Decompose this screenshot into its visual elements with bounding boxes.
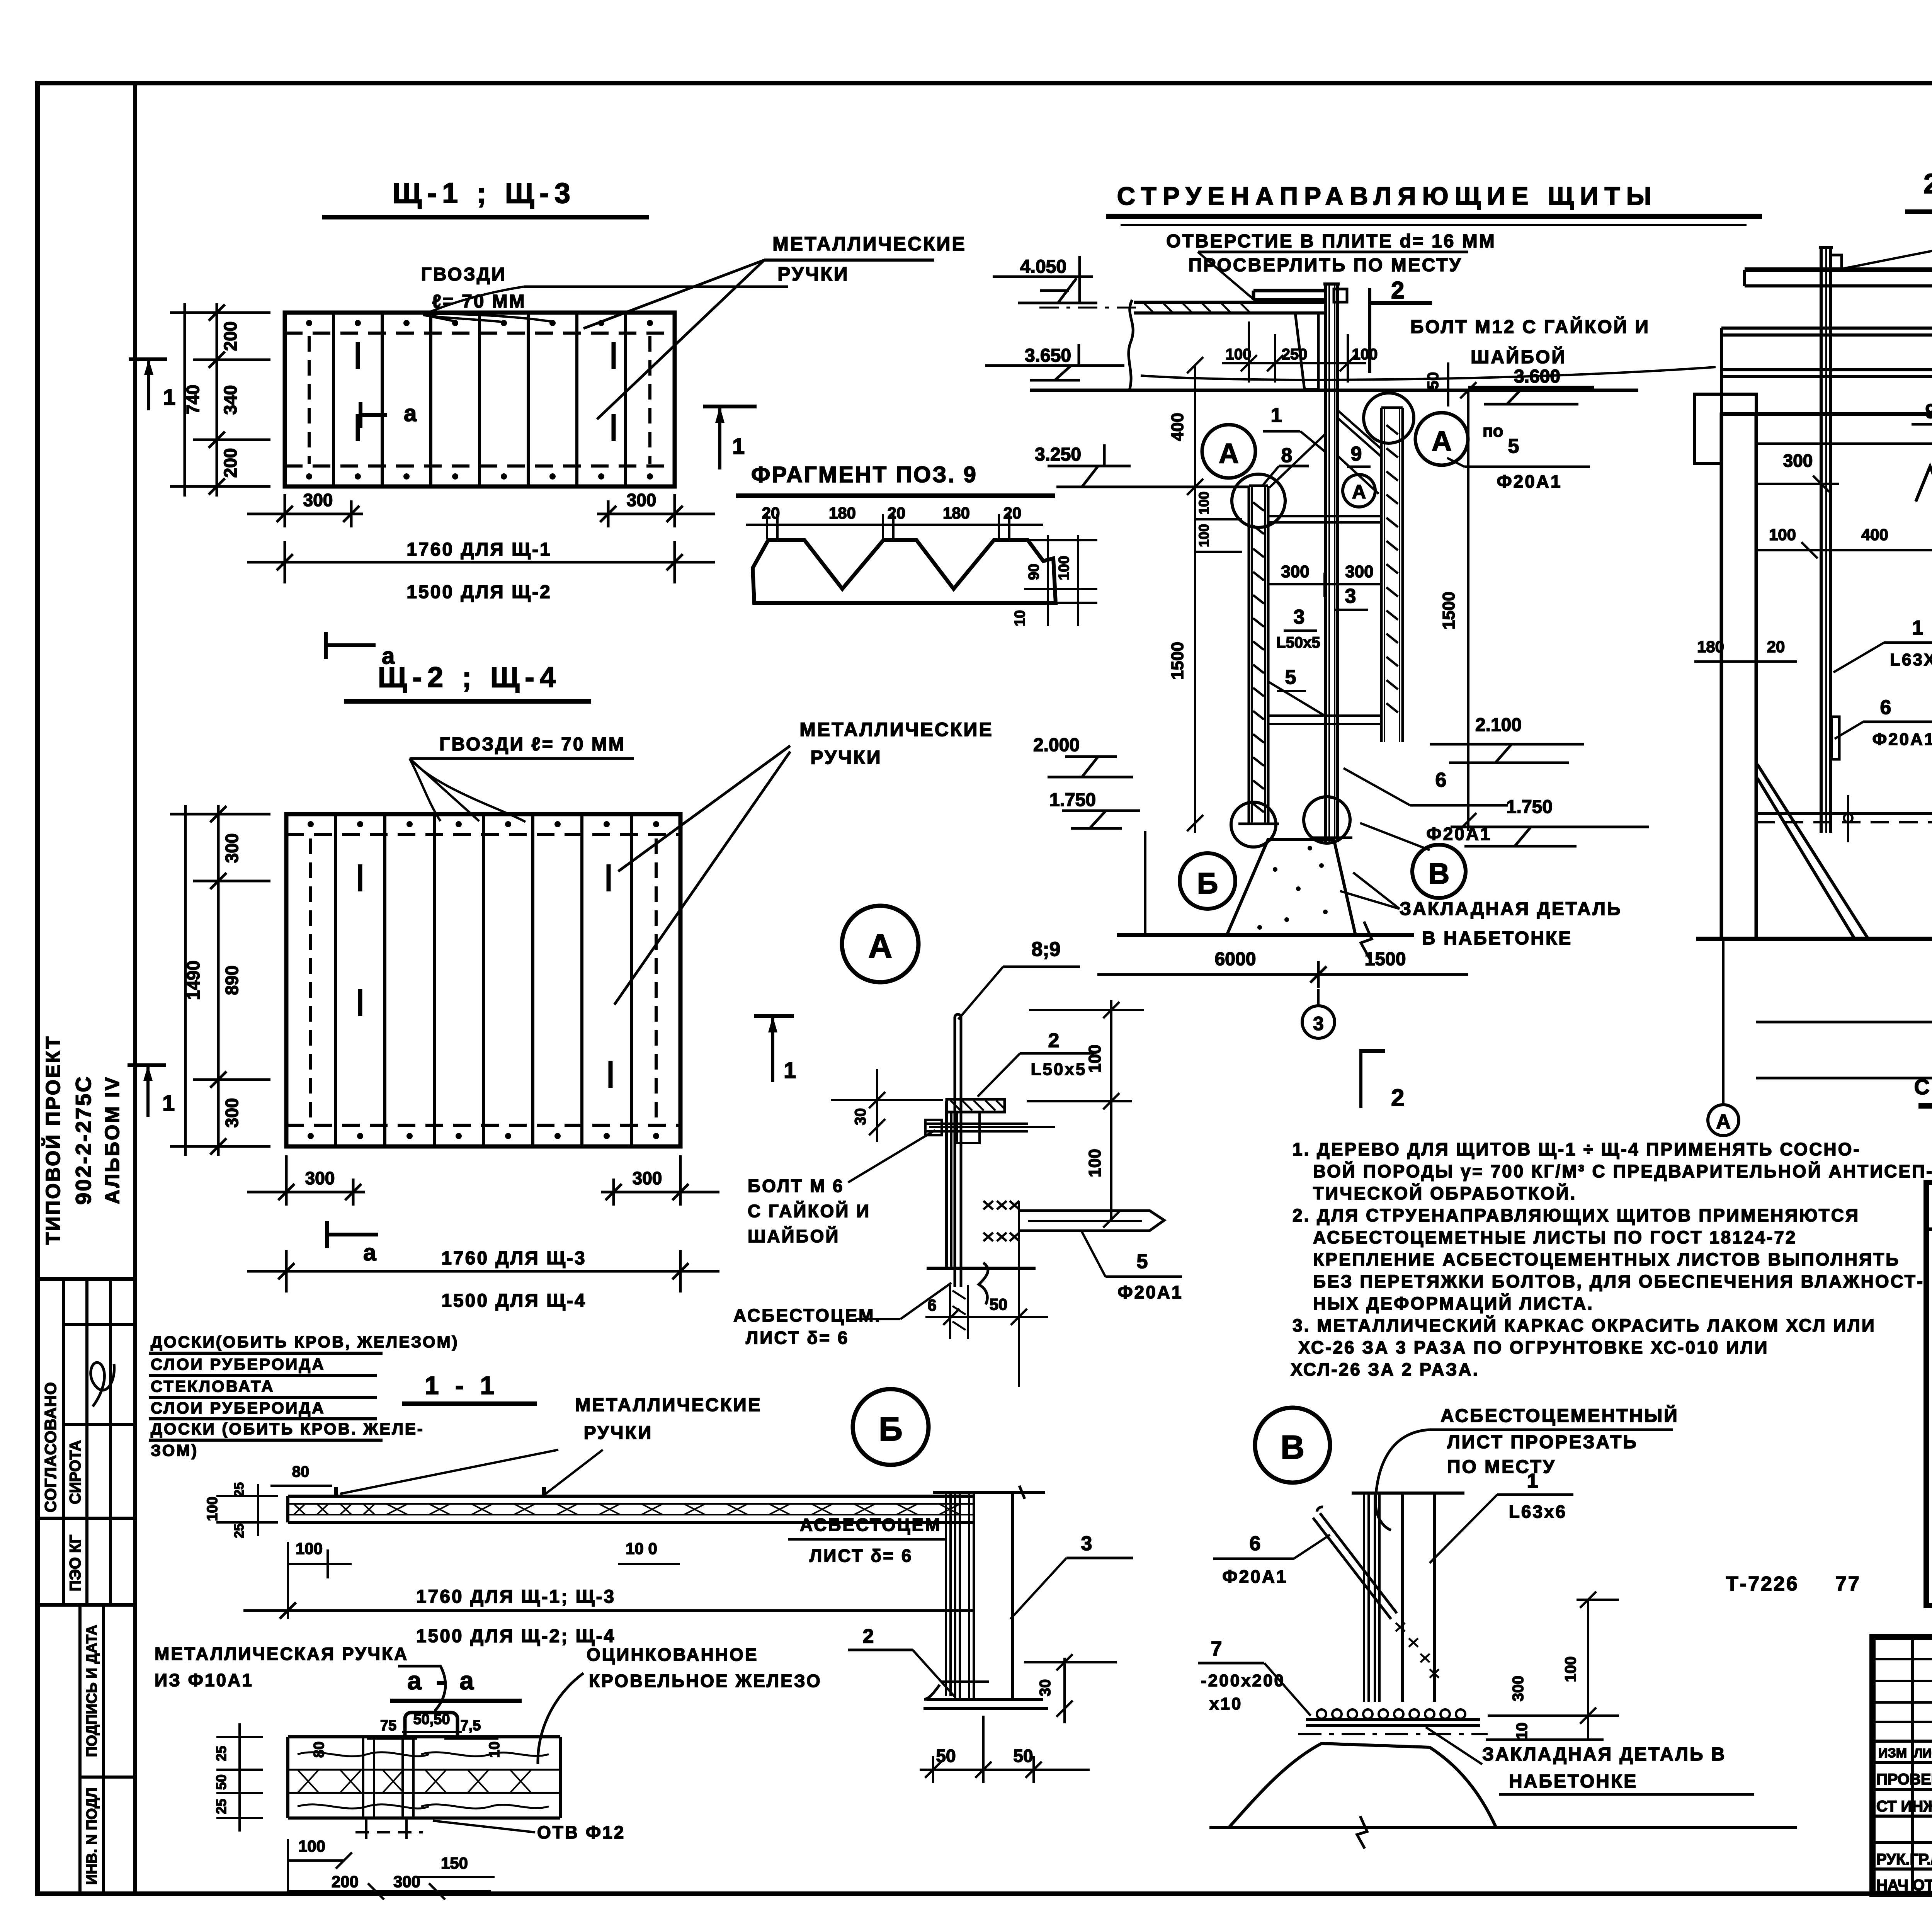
svg-text:БЕЗ ПЕРЕТЯЖКИ БОЛТОВ, ДЛЯ: БЕЗ ПЕРЕТЯЖКИ БОЛТОВ, ДЛЯ ОБЕСПЕЧЕНИЯ ВЛ… xyxy=(1313,1271,1924,1291)
svg-text:300: 300 xyxy=(1510,1676,1527,1702)
svg-text:СПЕЦИФИКАЦИЯ МЕТАЛЛА НА СТР: СПЕЦИФИКАЦИЯ МЕТАЛЛА НА СТРУЕНАПРАВЛЯЮЩИ… xyxy=(1914,1075,1932,1099)
svg-text:А: А xyxy=(1432,426,1452,457)
svg-text:300: 300 xyxy=(393,1872,420,1891)
svg-text:ИЗ Ф10А1: ИЗ Ф10А1 xyxy=(155,1670,253,1690)
svg-text:L50x5: L50x5 xyxy=(1031,1060,1087,1079)
svg-text:300: 300 xyxy=(1281,562,1309,581)
outer xyxy=(1872,1637,1932,1894)
zigzag plate xyxy=(753,540,1056,603)
bolt M12 xyxy=(1334,289,1347,302)
svg-text:1500: 1500 xyxy=(1168,642,1187,680)
svg-text:ПОДПИСЬ И ДАТА: ПОДПИСЬ И ДАТА xyxy=(84,1625,100,1757)
svg-text:МЕТАЛЛИЧЕСКАЯ РУЧКА: МЕТАЛЛИЧЕСКАЯ РУЧКА xyxy=(155,1644,408,1664)
left dims 25 50 25 xyxy=(238,1723,241,1832)
board joints xyxy=(332,313,335,486)
svg-text:90: 90 xyxy=(1026,564,1042,580)
post verticals xyxy=(1401,1493,1404,1702)
svg-text:а: а xyxy=(404,400,417,426)
right bar xyxy=(1380,408,1383,742)
svg-text:400: 400 xyxy=(1168,413,1187,441)
left dims 300/890/300 1490 xyxy=(217,805,220,1156)
svg-text:Ф20А1: Ф20А1 xyxy=(1222,1566,1287,1587)
weld x marks xyxy=(983,1201,1019,1241)
svg-text:Б: Б xyxy=(879,1411,903,1448)
dashed verticals in end boards xyxy=(308,336,311,464)
svg-text:МЕТАЛЛИЧЕСКИЕ: МЕТАЛЛИЧЕСКИЕ xyxy=(772,233,966,255)
dashed batten lines xyxy=(285,332,675,335)
svg-text:1500 ДЛЯ Щ-2: 1500 ДЛЯ Щ-2 xyxy=(406,582,551,602)
svg-text:300: 300 xyxy=(222,833,242,863)
left wall hatched xyxy=(1721,414,1756,939)
svg-text:200: 200 xyxy=(220,321,240,351)
svg-text:30: 30 xyxy=(1037,1679,1054,1697)
svg-text:1760 ДЛЯ Щ-1; Щ-3: 1760 ДЛЯ Щ-1; Щ-3 xyxy=(416,1587,616,1607)
x-hatch middle layer xyxy=(298,1770,531,1793)
svg-text:1760 ДЛЯ Щ-1: 1760 ДЛЯ Щ-1 xyxy=(406,539,551,560)
svg-text:Ф20А1: Ф20А1 xyxy=(1872,730,1932,749)
L angle vertical leg xyxy=(945,1101,948,1268)
bolt tail below xyxy=(949,1285,951,1339)
posts xyxy=(1820,247,1823,833)
right small dims xyxy=(1047,535,1049,626)
soffit line 3.600 level xyxy=(1030,389,1638,392)
svg-text:8: 8 xyxy=(1281,444,1293,467)
handle xyxy=(405,1713,457,1737)
svg-text:400: 400 xyxy=(1861,526,1888,544)
braces xyxy=(1338,410,1381,449)
svg-text:ЗОМ): ЗОМ) xyxy=(151,1441,198,1459)
svg-text:Ф20А1: Ф20А1 xyxy=(1117,1282,1183,1302)
svg-text:5: 5 xyxy=(1137,1250,1148,1273)
svg-text:6: 6 xyxy=(927,1296,936,1314)
svg-text:150: 150 xyxy=(441,1854,468,1872)
central post xyxy=(1324,284,1327,842)
svg-text:СТЕКЛОВАТА: СТЕКЛОВАТА xyxy=(151,1377,275,1395)
section mark 1 left xyxy=(128,1063,166,1067)
svg-text:9: 9 xyxy=(1351,443,1362,465)
callout circle Б xyxy=(853,1389,929,1465)
svg-text:ℓ= 70 ММ: ℓ= 70 ММ xyxy=(432,291,526,312)
svg-text:Ф20А1: Ф20А1 xyxy=(1497,471,1562,492)
svg-text:КРЕПЛЕНИЕ АСБЕСТОЦЕМЕНТНЫХ Л: КРЕПЛЕНИЕ АСБЕСТОЦЕМЕНТНЫХ ЛИСТОВ ВЫПОЛН… xyxy=(1313,1249,1900,1269)
svg-text:100: 100 xyxy=(204,1497,221,1521)
wood grain squiggles top layer xyxy=(298,1752,549,1756)
callout circles xyxy=(1202,425,1255,478)
svg-text:6: 6 xyxy=(1250,1532,1261,1555)
svg-text:9: 9 xyxy=(1925,400,1932,423)
nail dots top xyxy=(306,320,653,480)
svg-text:МЕТАЛЛИЧЕСКИЕ: МЕТАЛЛИЧЕСКИЕ xyxy=(799,719,993,740)
svg-text:L63X6: L63X6 xyxy=(1890,650,1932,669)
gusset hatched xyxy=(957,1112,980,1143)
svg-text:В НАБЕТОНКЕ: В НАБЕТОНКЕ xyxy=(1422,928,1572,949)
svg-text:100: 100 xyxy=(1056,556,1072,580)
svg-text:ШАЙБОЙ: ШАЙБОЙ xyxy=(748,1226,840,1246)
svg-text:300: 300 xyxy=(1345,562,1373,581)
svg-text:1: 1 xyxy=(1271,404,1282,427)
svg-text:x10: x10 xyxy=(1209,1694,1242,1713)
x-hatch cells xyxy=(294,1504,960,1515)
svg-text:1. ДЕРЕВО ДЛЯ ЩИТОВ Щ-1 ÷ Щ-: 1. ДЕРЕВО ДЛЯ ЩИТОВ Щ-1 ÷ Щ-4 ПРИМЕНЯТЬ … xyxy=(1293,1139,1861,1159)
svg-text:3.250: 3.250 xyxy=(1035,444,1081,465)
bolt through xyxy=(927,1122,1028,1125)
bottom dims xyxy=(247,1191,365,1194)
slab strip xyxy=(1134,301,1324,304)
svg-text:ШАЙБОЙ: ШАЙБОЙ xyxy=(1471,346,1566,367)
svg-text:L50x5: L50x5 xyxy=(1276,634,1320,651)
svg-text:10: 10 xyxy=(1012,610,1028,626)
mound xyxy=(1229,1743,1496,1828)
svg-text:3: 3 xyxy=(1345,585,1356,607)
svg-text:РУЧКИ: РУЧКИ xyxy=(777,263,849,285)
svg-text:100: 100 xyxy=(1085,1044,1104,1073)
svg-text:20: 20 xyxy=(1003,504,1022,522)
svg-text:АСБЕСТОЦЕМ.: АСБЕСТОЦЕМ. xyxy=(733,1305,881,1325)
svg-text:2 - 2: 2 - 2 xyxy=(1923,168,1932,199)
svg-text:А: А xyxy=(1716,1111,1731,1133)
svg-text:ЛИСТ δ= 6: ЛИСТ δ= 6 xyxy=(810,1546,913,1566)
svg-text:1500 ДЛЯ Щ-4: 1500 ДЛЯ Щ-4 xyxy=(441,1291,586,1311)
svg-text:30: 30 xyxy=(852,1108,869,1126)
svg-text:СТРУЕНАПРАВЛЯЮЩИЕ ЩИТЫ: СТРУЕНАПРАВЛЯЮЩИЕ ЩИТЫ xyxy=(1117,182,1658,210)
svg-text:100: 100 xyxy=(1226,346,1252,363)
svg-text:2. ДЛЯ СТРУЕНАПРАВЛЯЮЩИХ ЩИТ: 2. ДЛЯ СТРУЕНАПРАВЛЯЮЩИХ ЩИТОВ ПРИМЕНЯЮТ… xyxy=(1293,1205,1860,1225)
svg-text:25: 25 xyxy=(232,1524,247,1538)
svg-text:СИРОТА: СИРОТА xyxy=(67,1440,84,1504)
svg-text:Т-7226: Т-7226 xyxy=(1726,1573,1799,1595)
overall dims xyxy=(247,1270,719,1273)
svg-text:1500: 1500 xyxy=(1439,592,1458,629)
svg-text:В: В xyxy=(1429,857,1450,890)
angle seat: top plate xyxy=(947,1099,1005,1112)
svg-text:ОТВ Ф12: ОТВ Ф12 xyxy=(537,1822,625,1842)
left revision table verticals xyxy=(1911,1637,1914,1894)
svg-text:1: 1 xyxy=(162,1091,175,1116)
svg-text:ГВОЗДИ ℓ= 70 ММ: ГВОЗДИ ℓ= 70 ММ xyxy=(439,734,626,755)
svg-text:1760 ДЛЯ Щ-3: 1760 ДЛЯ Щ-3 xyxy=(441,1248,586,1269)
svg-text:200: 200 xyxy=(332,1872,359,1891)
svg-text:РУЧКИ: РУЧКИ xyxy=(584,1423,653,1443)
anchor plate on slab xyxy=(1253,289,1324,293)
svg-text:Щ-2 ; Щ-4: Щ-2 ; Щ-4 xyxy=(378,661,561,693)
ground line xyxy=(1696,937,1932,941)
svg-text:25: 25 xyxy=(213,1799,229,1814)
svg-text:БОЛТ М12 С ГАЙКОЙ И: БОЛТ М12 С ГАЙКОЙ И xyxy=(1410,316,1650,337)
svg-text:НАЧ ОТД: НАЧ ОТД xyxy=(1876,1877,1932,1894)
post verticals xyxy=(954,1492,956,1699)
svg-text:1 - 1: 1 - 1 xyxy=(425,1371,499,1400)
base plate with bolts xyxy=(1317,1709,1465,1719)
svg-text:6: 6 xyxy=(1880,696,1891,719)
svg-text:А: А xyxy=(1219,438,1239,469)
svg-text:2.100: 2.100 xyxy=(1475,715,1522,735)
svg-text:СОГЛАСОВАНО: СОГЛАСОВАНО xyxy=(41,1382,60,1512)
svg-text:300: 300 xyxy=(633,1168,662,1188)
svg-text:50: 50 xyxy=(1425,372,1442,389)
svg-text:ОТВЕРСТИЕ В ПЛИТЕ d= 16 ММ: ОТВЕРСТИЕ В ПЛИТЕ d= 16 ММ xyxy=(1166,231,1496,252)
svg-text:ФРАГМЕНТ ПОЗ. 9: ФРАГМЕНТ ПОЗ. 9 xyxy=(751,462,978,487)
left vertical dim 400 / 1500 xyxy=(1194,365,1196,833)
svg-text:100: 100 xyxy=(298,1837,325,1855)
а mark inside panel xyxy=(359,402,362,428)
svg-text:ОЦИНКОВАННОЕ: ОЦИНКОВАННОЕ xyxy=(587,1645,759,1665)
svg-text:В: В xyxy=(1281,1429,1304,1466)
section mark 1 xyxy=(754,1014,794,1018)
diagonal rod xyxy=(1313,1518,1391,1619)
section mark 2 top xyxy=(1368,288,1371,373)
svg-text:740: 740 xyxy=(183,385,203,415)
svg-text:3. МЕТАЛЛИЧЕСКИЙ КАРКАС ОКРА: 3. МЕТАЛЛИЧЕСКИЙ КАРКАС ОКРАСИТЬ ЛАКОМ Х… xyxy=(1293,1315,1876,1335)
svg-text:ТИЧЕСКОЙ ОБРАБОТКОЙ.: ТИЧЕСКОЙ ОБРАБОТКОЙ. xyxy=(1313,1183,1577,1203)
svg-text:250: 250 xyxy=(1282,346,1308,363)
svg-text:2: 2 xyxy=(1048,1029,1060,1052)
svg-text:L63x6: L63x6 xyxy=(1509,1502,1567,1522)
svg-text:ИНВ. N ПОДЛ: ИНВ. N ПОДЛ xyxy=(84,1787,100,1884)
svg-text:ПО МЕСТУ: ПО МЕСТУ xyxy=(1447,1457,1556,1477)
rod Ф20 xyxy=(1020,1211,1164,1231)
sheet verticals xyxy=(1363,1493,1365,1702)
svg-text:РУК.ГР./: РУК.ГР./ xyxy=(1876,1851,1932,1868)
подпись и дата block xyxy=(78,1605,82,1894)
panel rectangle xyxy=(286,814,680,1146)
svg-text:РУЧКИ: РУЧКИ xyxy=(810,747,882,768)
svg-text:10: 10 xyxy=(1514,1723,1531,1740)
foundation mound xyxy=(1227,839,1355,935)
runners xyxy=(1268,515,1381,517)
section mark 1 (left of panel) xyxy=(129,357,167,361)
svg-text:ЗАКЛАДНАЯ ДЕТАЛЬ: ЗАКЛАДНАЯ ДЕТАЛЬ xyxy=(1400,899,1622,919)
svg-text:А: А xyxy=(868,928,892,965)
svg-text:1: 1 xyxy=(784,1058,796,1083)
svg-text:200: 200 xyxy=(220,448,240,478)
svg-text:1500 ДЛЯ Щ-2; Щ-4: 1500 ДЛЯ Щ-2; Щ-4 xyxy=(416,1626,616,1646)
svg-text:2: 2 xyxy=(863,1625,874,1648)
gusset wedge hatched xyxy=(1295,313,1318,389)
svg-text:а - а: а - а xyxy=(407,1666,478,1695)
svg-text:1490: 1490 xyxy=(183,961,203,1000)
svg-text:4.050: 4.050 xyxy=(1020,257,1066,277)
svg-text:1: 1 xyxy=(163,385,175,410)
svg-text:а: а xyxy=(363,1240,376,1265)
panel rectangle xyxy=(285,313,675,486)
svg-text:340: 340 xyxy=(220,385,240,415)
svg-text:ЗАКЛАДНАЯ ДЕТАЛЬ В: ЗАКЛАДНАЯ ДЕТАЛЬ В xyxy=(1482,1744,1726,1765)
handle tick marks xyxy=(356,342,360,369)
svg-text:1: 1 xyxy=(1912,617,1923,639)
handles on top xyxy=(334,1487,338,1496)
svg-text:АСБЕСТОЦЕМЕТНЫЕ ЛИСТЫ ПО ГО: АСБЕСТОЦЕМЕТНЫЕ ЛИСТЫ ПО ГОСТ 18124-72 xyxy=(1313,1227,1797,1247)
svg-text:3.600: 3.600 xyxy=(1514,366,1560,387)
svg-text:300: 300 xyxy=(627,490,656,510)
svg-text:ПРОСВЕРЛИТЬ ПО МЕСТУ: ПРОСВЕРЛИТЬ ПО МЕСТУ xyxy=(1189,255,1463,276)
svg-text:1: 1 xyxy=(1527,1470,1538,1492)
signature squiggle xyxy=(91,1362,114,1406)
svg-text:ПРОВЕР.: ПРОВЕР. xyxy=(1876,1771,1932,1788)
callout circle В xyxy=(1255,1408,1330,1483)
svg-text:3: 3 xyxy=(1294,606,1305,628)
ground line xyxy=(1117,933,1414,937)
svg-text:180: 180 xyxy=(1697,638,1724,656)
table outer xyxy=(1926,1182,1932,1605)
svg-text:СТ ИНЖ: СТ ИНЖ xyxy=(1876,1798,1932,1815)
svg-text:80: 80 xyxy=(292,1463,310,1480)
svg-text:890: 890 xyxy=(222,966,242,995)
svg-text:СЛОИ РУБЕРОИДА: СЛОИ РУБЕРОИДА xyxy=(151,1355,325,1373)
svg-text:3: 3 xyxy=(1081,1532,1092,1555)
top cut line xyxy=(1352,1492,1464,1495)
axis circle А xyxy=(1708,1105,1739,1136)
svg-text:ТИПОВОЙ ПРОЕКТ: ТИПОВОЙ ПРОЕКТ xyxy=(42,1035,65,1245)
svg-text:25: 25 xyxy=(213,1746,229,1761)
svg-text:ГВОЗДИ: ГВОЗДИ xyxy=(421,264,507,285)
svg-text:3: 3 xyxy=(1313,1013,1324,1034)
support triangles xyxy=(1757,764,1868,939)
left dims xyxy=(257,1484,259,1536)
base plate xyxy=(924,1685,982,1699)
svg-text:1.750: 1.750 xyxy=(1506,797,1553,817)
svg-text:Б: Б xyxy=(1197,867,1218,900)
svg-text:7: 7 xyxy=(1211,1638,1222,1660)
svg-text:100: 100 xyxy=(1196,524,1212,547)
svg-text:50: 50 xyxy=(990,1295,1008,1313)
top cut line xyxy=(933,1491,1045,1494)
svg-text:1: 1 xyxy=(732,434,745,459)
svg-text:10 0: 10 0 xyxy=(626,1539,657,1558)
svg-text:8;9: 8;9 xyxy=(1031,938,1060,961)
svg-text:10: 10 xyxy=(486,1742,503,1758)
svg-text:50: 50 xyxy=(1013,1746,1033,1766)
svg-text:ХСЛ-26 ЗА 2 РАЗА.: ХСЛ-26 ЗА 2 РАЗА. xyxy=(1291,1359,1479,1379)
svg-text:МЕТАЛЛИЧЕСКИЕ: МЕТАЛЛИЧЕСКИЕ xyxy=(575,1395,762,1415)
svg-text:20: 20 xyxy=(888,504,906,522)
svg-text:100: 100 xyxy=(1352,346,1378,363)
svg-text:6: 6 xyxy=(1435,769,1447,791)
dim 30 left xyxy=(876,1069,878,1142)
svg-text:КРОВЕЛЬНОЕ ЖЕЛЕЗО: КРОВЕЛЬНОЕ ЖЕЛЕЗО xyxy=(589,1671,822,1691)
svg-text:1.750: 1.750 xyxy=(1049,790,1096,810)
svg-text:2: 2 xyxy=(1391,1085,1404,1111)
bolt cross at plate xyxy=(941,1680,989,1683)
section mark 2 bottom xyxy=(1359,1049,1362,1108)
svg-text:АЛЬБОМ IV: АЛЬБОМ IV xyxy=(101,1076,124,1204)
bottom dims 300 / 300 xyxy=(247,513,363,515)
svg-text:20: 20 xyxy=(1767,638,1785,656)
svg-text:300: 300 xyxy=(222,1098,242,1128)
svg-text:7,5: 7,5 xyxy=(461,1718,481,1734)
svg-text:6000: 6000 xyxy=(1215,949,1256,969)
согласовано table xyxy=(37,1277,135,1281)
svg-text:ЛИСТ ПРОРЕЗАТЬ: ЛИСТ ПРОРЕЗАТЬ xyxy=(1447,1432,1638,1452)
svg-text:100: 100 xyxy=(1769,526,1796,544)
svg-text:100: 100 xyxy=(1085,1149,1104,1177)
Б В callout circles xyxy=(1180,853,1235,909)
svg-text:3.650: 3.650 xyxy=(1025,345,1071,366)
svg-text:ЛИСТ δ= 6: ЛИСТ δ= 6 xyxy=(746,1328,849,1348)
svg-text:77: 77 xyxy=(1835,1573,1861,1595)
svg-text:2.000: 2.000 xyxy=(1033,735,1080,755)
svg-text:А: А xyxy=(1352,481,1366,503)
svg-text:180: 180 xyxy=(943,504,970,522)
right dims 100 300 10 xyxy=(1587,1600,1589,1741)
bottom rail xyxy=(1756,812,1932,815)
base plates xyxy=(1238,823,1279,825)
svg-text:100: 100 xyxy=(1562,1656,1579,1682)
sandwich strip xyxy=(288,1495,974,1498)
handle ticks xyxy=(358,864,362,891)
break squiggle xyxy=(979,1263,988,1304)
svg-text:СЛОИ РУБЕРОИДА: СЛОИ РУБЕРОИДА xyxy=(151,1399,325,1417)
svg-text:902-2-275С: 902-2-275С xyxy=(71,1075,95,1205)
bottom foot xyxy=(927,1267,1036,1270)
svg-text:ХС-26 ЗА 3 РАЗА ПО ОГРУНТОВ: ХС-26 ЗА 3 РАЗА ПО ОГРУНТОВКЕ ХС-010 ИЛИ xyxy=(1298,1337,1769,1357)
svg-text:по: по xyxy=(1483,422,1503,440)
mini grid rows xyxy=(1872,1658,1932,1660)
sidebar divider line xyxy=(133,83,137,1894)
svg-text:ПЭО КГ: ПЭО КГ xyxy=(67,1535,84,1592)
svg-text:Щ-1 ; Щ-3: Щ-1 ; Щ-3 xyxy=(393,177,576,209)
axis circle 3 xyxy=(1302,1006,1335,1038)
svg-text:100: 100 xyxy=(1196,492,1212,515)
sandwich xyxy=(288,1735,560,1738)
callout circle А xyxy=(842,906,918,982)
svg-text:НАБЕТОНКЕ: НАБЕТОНКЕ xyxy=(1509,1771,1638,1792)
svg-text:75: 75 xyxy=(380,1718,396,1734)
right vertical dim 100/100 xyxy=(1110,1000,1112,1221)
section mark 1 (upper, near fragment) xyxy=(703,405,757,408)
svg-text:С ГАЙКОЙ И: С ГАЙКОЙ И xyxy=(748,1201,871,1221)
svg-text:АСБЕСТОЦЕМЕНТНЫЙ: АСБЕСТОЦЕМЕНТНЫЙ xyxy=(1440,1405,1679,1426)
а mark xyxy=(325,1221,329,1248)
left dimension lines 200/340/200 and 740 xyxy=(216,303,218,497)
svg-text:50: 50 xyxy=(213,1774,229,1790)
svg-text:ВОЙ ПОРОДЫ γ= 700 КГ/М³ С ПР: ВОЙ ПОРОДЫ γ= 700 КГ/М³ С ПРЕДВАРИТЕЛЬНО… xyxy=(1313,1161,1932,1181)
overall dim 1760/1500 xyxy=(247,561,715,564)
svg-text:5: 5 xyxy=(1508,435,1519,457)
svg-text:ИЗМ: ИЗМ xyxy=(1878,1746,1907,1760)
right vertical dim 1500 xyxy=(1467,390,1469,831)
top slab lines xyxy=(1745,267,1932,272)
svg-text:25: 25 xyxy=(232,1482,247,1497)
svg-text:300: 300 xyxy=(305,1168,335,1188)
svg-text:ЛИСТ: ЛИСТ xyxy=(1914,1746,1932,1760)
svg-text:ДОСКИ(ОБИТЬ КРОВ, ЖЕЛЕЗОМ): ДОСКИ(ОБИТЬ КРОВ, ЖЕЛЕЗОМ) xyxy=(151,1333,459,1351)
а mark below xyxy=(324,632,328,659)
svg-text:БОЛТ М 6: БОЛТ М 6 xyxy=(748,1176,844,1196)
svg-text:5: 5 xyxy=(1285,666,1296,689)
svg-text:НЫХ ДЕФОРМАЦИЙ ЛИСТА.: НЫХ ДЕФОРМАЦИЙ ЛИСТА. xyxy=(1313,1293,1594,1313)
svg-text:1500: 1500 xyxy=(1365,949,1406,969)
svg-text:300: 300 xyxy=(303,490,333,510)
svg-text:100: 100 xyxy=(296,1539,323,1558)
left bar xyxy=(1248,486,1250,823)
svg-text:300: 300 xyxy=(1783,451,1813,471)
svg-text:ДОСКИ (ОБИТЬ КРОВ. ЖЕЛЕ-: ДОСКИ (ОБИТЬ КРОВ. ЖЕЛЕ- xyxy=(151,1420,424,1438)
bolt verticals xyxy=(362,1737,364,1818)
svg-text:80: 80 xyxy=(311,1742,327,1758)
svg-text:АСБЕСТОЦЕМ: АСБЕСТОЦЕМ xyxy=(800,1515,941,1535)
small hooks at post tops xyxy=(1832,255,1932,274)
dim 30 right xyxy=(1063,1658,1066,1723)
asbestos sheet bar xyxy=(954,1017,956,1287)
svg-text:2: 2 xyxy=(1391,277,1404,304)
svg-text:180: 180 xyxy=(829,504,856,522)
